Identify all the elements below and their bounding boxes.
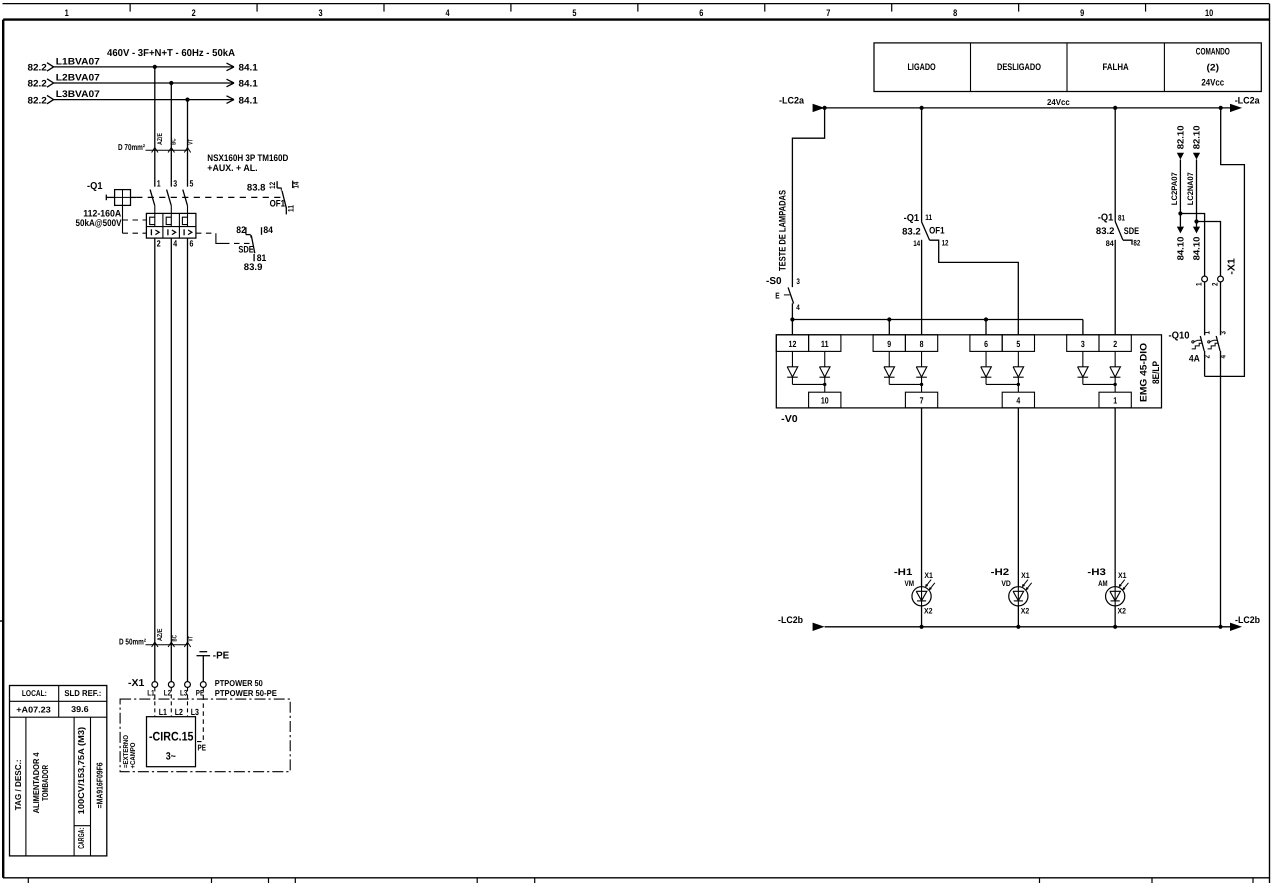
svg-text:L2: L2 <box>164 689 172 698</box>
svg-text:PTPOWER 50-PE: PTPOWER 50-PE <box>215 688 277 698</box>
svg-text:X2: X2 <box>1118 607 1127 616</box>
title block rotated =MA916F09F6 <box>95 762 105 808</box>
diode below terminal 3 <box>1078 351 1089 384</box>
dash-dot boundary box EXTERNO CAMPO <box>120 699 290 772</box>
svg-text:(2): (2) <box>1207 63 1220 74</box>
magnetic trip element I> pole 1 <box>151 229 159 235</box>
svg-text:8: 8 <box>920 339 924 349</box>
svg-text:100CV/153,75A (M3): 100CV/153,75A (M3) <box>76 727 86 815</box>
junction node LC2PA07 branch <box>1178 211 1182 215</box>
svg-text:L3: L3 <box>191 707 199 717</box>
svg-text:-LC2a: -LC2a <box>1235 95 1261 106</box>
svg-text:12: 12 <box>268 182 277 189</box>
svg-text:-S0: -S0 <box>766 276 782 287</box>
terminal strip label -X1 rotated <box>1226 258 1237 275</box>
svg-text:-Q1: -Q1 <box>904 213 920 224</box>
pushbutton S0 lamp test <box>766 276 800 335</box>
svg-text:1: 1 <box>1113 396 1117 406</box>
svg-text:82.10: 82.10 <box>1176 125 1186 149</box>
module input terminals 9 8 <box>873 335 938 352</box>
svg-text:6: 6 <box>984 339 988 349</box>
svg-text:7: 7 <box>826 8 830 19</box>
svg-text:4: 4 <box>445 8 450 19</box>
svg-text:4: 4 <box>1016 396 1020 406</box>
wire feeder L1BVA07 from 82.2 to 84.1 <box>28 56 259 73</box>
aux contact Q1 OF1 (sheet 83.2) <box>902 213 945 335</box>
svg-text:5: 5 <box>572 8 577 19</box>
wire bus to S0 with jog <box>792 108 824 287</box>
svg-text:4A: 4A <box>1189 353 1200 364</box>
breaker Q1 reference label <box>87 181 103 192</box>
svg-text:82.2: 82.2 <box>28 63 47 74</box>
svg-text:14: 14 <box>913 239 920 248</box>
title block text LOCAL <box>22 688 47 698</box>
svg-text:3: 3 <box>173 178 177 188</box>
svg-text:AZ/E: AZ/E <box>157 628 164 641</box>
wire diode pair join group 4 <box>1083 383 1117 393</box>
thermal overload element pole 2 <box>166 206 171 227</box>
indicator lamp -H3 AM LED <box>1087 567 1128 616</box>
wire Q10 return to bus LC2a <box>1205 108 1245 377</box>
svg-text:VM: VM <box>905 579 915 588</box>
wire bus LC2a to SDE common <box>1114 108 1116 222</box>
svg-text:OF1: OF1 <box>929 226 945 237</box>
wire X1-1 to Q10 pole1 <box>1204 282 1206 335</box>
module input terminals 12 11 <box>776 335 841 352</box>
svg-text:COMANDO: COMANDO <box>1196 47 1230 58</box>
breaker Q10 pole 1 <box>1192 331 1212 377</box>
title block rotated TAG / DESC. <box>13 759 23 810</box>
svg-text:84.1: 84.1 <box>239 95 259 106</box>
svg-text:+A07.23: +A07.23 <box>16 705 51 715</box>
dashed links Q1 operator to trip unit <box>123 205 147 233</box>
svg-text:3: 3 <box>1219 331 1228 335</box>
title block text 39.6 <box>71 704 89 714</box>
outgoing arrow LC2NA07 to sheet 84.10 <box>1192 227 1202 261</box>
svg-text:-V0: -V0 <box>781 414 798 425</box>
title block text SLD REF. <box>64 688 101 698</box>
wire LC2PA07 branch to X1-1 <box>1180 214 1204 277</box>
svg-text:L3BVA07: L3BVA07 <box>56 89 100 100</box>
svg-text:-X1: -X1 <box>1226 258 1237 275</box>
value label 112-160A 50kA@500V <box>76 208 123 229</box>
junction node LC2NA07 branch <box>1194 219 1198 223</box>
breaker Q1 operator crossed box with leads <box>106 190 136 206</box>
svg-text:83.9: 83.9 <box>244 262 263 273</box>
svg-text:84: 84 <box>263 225 273 236</box>
svg-text:83.2: 83.2 <box>902 226 921 237</box>
svg-text:VD: VD <box>1001 579 1011 588</box>
svg-text:2: 2 <box>1210 282 1219 286</box>
svg-text:L2: L2 <box>175 707 183 717</box>
magnetic trip element I> pole 2 <box>168 229 176 235</box>
diode module EMG 45-DIO outer box <box>776 335 1161 408</box>
junction node feeder L1BVA07 <box>153 65 157 69</box>
net label 460V system title <box>107 48 235 59</box>
wire bus LC2a to OF1 common <box>921 108 923 222</box>
breaker Q10 pole 2 <box>1208 331 1228 627</box>
ground PE symbol and -PE label <box>197 651 230 682</box>
svg-text:PE: PE <box>198 743 207 753</box>
module reference -V0 <box>781 414 798 425</box>
svg-text:50kA@500V: 50kA@500V <box>76 218 123 229</box>
wire diode pair join group 2 <box>889 383 923 393</box>
svg-text:4: 4 <box>173 238 177 248</box>
svg-text:9: 9 <box>1080 8 1084 19</box>
svg-text:3: 3 <box>796 277 800 286</box>
terminal X1 circle PE <box>196 682 206 698</box>
svg-text:81: 81 <box>1118 214 1125 223</box>
diode below terminal 9 <box>884 351 895 384</box>
svg-text:1: 1 <box>1203 331 1212 335</box>
svg-text:11: 11 <box>286 205 295 212</box>
svg-text:-Q1: -Q1 <box>87 181 103 192</box>
svg-text:1: 1 <box>157 178 161 188</box>
svg-text:84.10: 84.10 <box>1176 237 1186 261</box>
svg-text:8: 8 <box>953 8 957 19</box>
svg-text:=MA916F09F6: =MA916F09F6 <box>95 762 105 808</box>
svg-text:OF1: OF1 <box>270 199 286 210</box>
svg-text:BC: BC <box>170 138 177 144</box>
module output terminal 7 <box>905 392 937 408</box>
wire OF1 pin12 to module terminal 5 <box>930 239 1019 335</box>
title block rotated ALIMENTADOR 4 TOMBADOR <box>31 752 50 813</box>
svg-text:84.1: 84.1 <box>239 63 259 74</box>
svg-text:3~: 3~ <box>166 750 176 762</box>
diode below terminal 6 <box>981 351 992 384</box>
svg-text:VT: VT <box>188 635 195 641</box>
svg-text:D 70mm²: D 70mm² <box>118 142 145 152</box>
svg-text:AM: AM <box>1098 579 1108 588</box>
aux contact Q1 SDE (sheet 83.2) <box>1096 213 1141 335</box>
value label NSX160H 3P TM160D +AUX. + AL. <box>207 153 288 174</box>
junction node feeder L3BVA07 <box>185 98 189 102</box>
diode below terminal 12 <box>787 351 798 384</box>
svg-text:83.2: 83.2 <box>1096 226 1115 237</box>
title block table <box>10 686 107 856</box>
module output terminal 10 <box>809 392 841 408</box>
svg-text:82.10: 82.10 <box>1192 125 1202 149</box>
load box CIRC.15 3-phase motor circuit <box>147 707 199 767</box>
bus -LC2a 24Vcc top rail <box>779 95 1260 112</box>
svg-text:39.6: 39.6 <box>71 704 89 714</box>
svg-text:LOCAL:: LOCAL: <box>22 688 47 698</box>
outgoing arrow LC2PA07 to sheet 84.10 <box>1176 227 1186 261</box>
junction node feeder L2BVA07 <box>169 81 173 85</box>
wire drop phase 3 to Q1 <box>187 100 189 187</box>
svg-text:2: 2 <box>1113 339 1117 349</box>
module name EMG 45-DIO 8E/LP rotated <box>1138 343 1162 402</box>
svg-text:SDE: SDE <box>238 244 253 255</box>
diode below terminal 2 <box>1110 351 1121 384</box>
svg-text:+CAMPO: +CAMPO <box>130 742 137 768</box>
terminal X1 circle L1 <box>147 682 157 698</box>
module input terminals 3 2 <box>1067 335 1132 352</box>
svg-text:-X1: -X1 <box>128 678 145 689</box>
svg-text:-H3: -H3 <box>1087 567 1106 578</box>
svg-text:84: 84 <box>1106 239 1114 248</box>
breaker Q1 pole bottom pin 6 <box>188 238 194 682</box>
svg-text:TESTE DE LAMPADAS: TESTE DE LAMPADAS <box>778 190 789 271</box>
svg-text:LC2NA07: LC2NA07 <box>1186 172 1195 206</box>
svg-text:24Vcc: 24Vcc <box>1047 97 1070 107</box>
svg-text:24Vcc: 24Vcc <box>1201 77 1224 88</box>
wire lamp -H1 to bus LC2b <box>921 606 923 627</box>
module input terminals 6 5 <box>970 335 1035 352</box>
function label TESTE DE LAMPADAS <box>778 190 789 271</box>
svg-text:4: 4 <box>796 303 800 312</box>
svg-text:FALHA: FALHA <box>1103 62 1129 73</box>
breaker Q1 pole contact 3 <box>167 178 178 205</box>
svg-text:-PE: -PE <box>213 651 230 662</box>
breaker Q1 pole bottom pin 4 <box>171 238 177 682</box>
terminal X1 circle 1 <box>1194 276 1207 286</box>
svg-text:-Q1: -Q1 <box>1098 213 1114 224</box>
wire module terminal 7 to lamp -H1 <box>921 408 923 587</box>
svg-text:2: 2 <box>192 8 196 19</box>
indicator lamp -H2 VD LED <box>991 567 1032 616</box>
svg-text:6: 6 <box>190 238 194 248</box>
cable name PTPOWER 50 / PTPOWER 50-PE <box>215 678 277 698</box>
svg-text:+AUX. + AL.: +AUX. + AL. <box>207 163 257 174</box>
svg-text:-Q10: -Q10 <box>1169 330 1190 341</box>
svg-text:-LC2b: -LC2b <box>1235 615 1260 626</box>
svg-text:X1: X1 <box>924 571 933 580</box>
svg-text:L3: L3 <box>180 689 188 698</box>
svg-text:8E/LP: 8E/LP <box>1151 360 1162 384</box>
svg-text:1: 1 <box>65 8 70 19</box>
wire lamp -H2 to bus LC2b <box>1017 606 1019 627</box>
dashed field wires into CIRC.15 <box>155 687 206 752</box>
terminal X1 circle L3 <box>180 682 190 698</box>
wire module terminal 1 to lamp -H3 <box>1114 408 1116 587</box>
breaker Q1 pole contact 5 <box>183 178 194 205</box>
wire diode pair join group 1 <box>792 383 826 393</box>
junction nodes on bus LC2b <box>919 625 1222 629</box>
junction node S0 to test bus <box>790 317 794 321</box>
svg-text:L1BVA07: L1BVA07 <box>56 56 100 67</box>
svg-text:SLD REF.:: SLD REF.: <box>64 688 101 698</box>
svg-text:82.2: 82.2 <box>28 79 47 90</box>
thermal overload element pole 1 <box>150 206 155 227</box>
svg-text:2: 2 <box>157 238 161 248</box>
incoming wire LC2PA07 from sheet 82.10 <box>1170 125 1186 226</box>
wire drop phase 1 to Q1 <box>154 67 156 187</box>
svg-text:SDE: SDE <box>1124 226 1139 237</box>
svg-text:L1: L1 <box>159 707 167 717</box>
svg-text:E: E <box>775 291 780 301</box>
wire drop phase 2 to Q1 <box>170 83 172 187</box>
svg-text:BC: BC <box>172 635 179 641</box>
svg-text:11: 11 <box>925 213 932 222</box>
title block rotated 100CV/153,75A (M3) <box>76 727 86 815</box>
diode below terminal 5 <box>1013 351 1024 384</box>
svg-text:L1: L1 <box>147 689 155 698</box>
indicator lamp -H1 VM LED <box>894 567 935 616</box>
svg-text:82: 82 <box>1133 239 1140 248</box>
svg-text:DESLIGADO: DESLIGADO <box>997 62 1041 73</box>
svg-text:-H1: -H1 <box>894 567 913 578</box>
module output terminal 4 <box>1002 392 1034 408</box>
svg-text:VT: VT <box>188 139 195 145</box>
svg-text:84.10: 84.10 <box>1192 237 1202 261</box>
svg-text:12: 12 <box>942 239 949 248</box>
svg-text:3: 3 <box>319 8 323 19</box>
wire LC2NA07 branch to X1-2 <box>1197 222 1221 277</box>
svg-text:9: 9 <box>887 339 891 349</box>
title block text +A07.23 <box>16 705 51 715</box>
wire feeder L3BVA07 from 82.2 to 84.1 <box>28 89 259 106</box>
terminal X1 circle 2 <box>1210 276 1223 286</box>
terminal strip X1 label <box>128 678 145 689</box>
svg-text:6: 6 <box>699 8 703 19</box>
svg-text:-H2: -H2 <box>991 567 1010 578</box>
svg-text:84.1: 84.1 <box>239 79 259 90</box>
aux contact SDE of Q1 with dashed trip link <box>196 225 274 273</box>
svg-text:EMG 45-DIO: EMG 45-DIO <box>1138 343 1149 402</box>
svg-text:-CIRC.15: -CIRC.15 <box>149 730 194 744</box>
svg-text:TAG / DESC.:: TAG / DESC.: <box>13 759 23 810</box>
incoming wire LC2NA07 from sheet 82.10 <box>1186 125 1202 226</box>
wire diode pair join group 3 <box>986 383 1020 393</box>
svg-text:1: 1 <box>1194 282 1203 286</box>
svg-text:11: 11 <box>821 339 829 349</box>
svg-text:7: 7 <box>920 396 924 406</box>
svg-text:X1: X1 <box>1021 571 1030 580</box>
svg-text:L2BVA07: L2BVA07 <box>56 72 100 83</box>
dashed actuator link Q1 to OF1 <box>136 196 281 198</box>
svg-text:10: 10 <box>821 396 829 406</box>
wire lamp test bus <box>792 317 1083 334</box>
diode below terminal 11 <box>819 351 830 384</box>
svg-text:D 50mm²: D 50mm² <box>119 636 146 646</box>
svg-text:-LC2b: -LC2b <box>778 615 803 626</box>
breaker Q1 pole contact 1 <box>150 178 161 205</box>
breaker Q10 label and rating <box>1169 330 1201 364</box>
svg-text:-LC2a: -LC2a <box>779 95 805 106</box>
svg-text:3: 3 <box>1081 339 1085 349</box>
svg-text:TOMBADOR: TOMBADOR <box>40 765 50 801</box>
wire gauge marker D 50mm2 with colour codes <box>119 628 195 647</box>
svg-text:X2: X2 <box>1021 607 1030 616</box>
trip unit box of Q1 thermal-magnetic <box>146 213 196 238</box>
svg-text:X1: X1 <box>1118 571 1127 580</box>
breaker Q1 pole bottom pin 2 <box>155 238 161 682</box>
diode below terminal 8 <box>916 351 927 384</box>
module output terminal 1 <box>1099 392 1131 408</box>
svg-text:12: 12 <box>789 339 797 349</box>
wire module terminal 4 to lamp -H2 <box>1017 408 1019 587</box>
svg-text:LC2PA07: LC2PA07 <box>1170 172 1179 206</box>
terminal X1 circle L2 <box>164 682 174 698</box>
wire lamp -H3 to bus LC2b <box>1114 606 1116 627</box>
aux contact OF1 of Q1 changeover <box>247 181 301 215</box>
status header table LIGADO DESLIGADO FALHA COMANDO <box>874 43 1261 92</box>
title block rotated CARGA <box>76 828 86 849</box>
svg-text:5: 5 <box>190 178 194 188</box>
svg-text:AZ/E: AZ/E <box>157 133 164 145</box>
svg-text:460V - 3F+N+T - 60Hz - 50kA: 460V - 3F+N+T - 60Hz - 50kA <box>107 48 235 59</box>
svg-text:5: 5 <box>1016 339 1020 349</box>
svg-text:CARGA:: CARGA: <box>76 828 86 849</box>
wire X1-2 to Q10 pole2 <box>1220 282 1222 335</box>
junction nodes on bus LC2a <box>823 106 1223 110</box>
svg-text:LIGADO: LIGADO <box>908 62 936 73</box>
svg-text:83.8: 83.8 <box>247 182 266 193</box>
svg-text:PTPOWER 50: PTPOWER 50 <box>215 678 263 688</box>
thermal overload element pole 3 <box>182 206 187 227</box>
svg-text:X2: X2 <box>924 607 933 616</box>
bus -LC2b bottom rail <box>778 615 1260 631</box>
svg-text:82: 82 <box>236 225 246 236</box>
svg-text:82.2: 82.2 <box>28 95 47 106</box>
svg-text:10: 10 <box>1205 8 1213 19</box>
wire feeder L2BVA07 from 82.2 to 84.1 <box>28 72 259 89</box>
wire gauge marker D 70mm2 with colour codes AZ/E BC VT <box>118 133 195 153</box>
magnetic trip element I> pole 3 <box>184 229 192 235</box>
